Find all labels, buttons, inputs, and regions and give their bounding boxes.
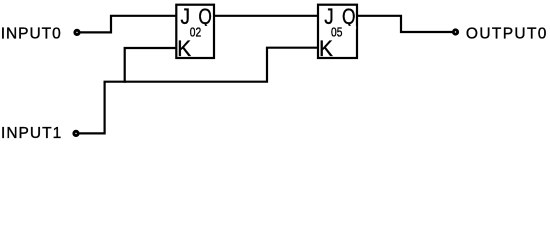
- JK flip-flop U2 (05): [318, 4, 357, 61]
- svg-text:K: K: [177, 36, 191, 61]
- wire INPUT0 to J of U1: [80, 16, 175, 33]
- svg-text:INPUT1: INPUT1: [1, 125, 61, 142]
- svg-text:J: J: [181, 4, 191, 29]
- wire INPUT1 bus to K of U2: [79, 48, 317, 134]
- wire Q of U2 to OUTPUT0: [358, 16, 453, 32]
- svg-text:Q: Q: [342, 4, 356, 29]
- svg-text:02: 02: [190, 26, 201, 40]
- input pin INPUT0: [75, 30, 79, 34]
- svg-text:05: 05: [331, 26, 342, 40]
- svg-text:K: K: [319, 36, 333, 61]
- svg-text:INPUT0: INPUT0: [1, 25, 61, 42]
- wire Q of U1 to J of U2: [214, 15, 318, 17]
- JK flip-flop U1 (02): [176, 4, 214, 61]
- output pin OUTPUT0: [453, 30, 457, 34]
- wire branch junction to K of U1: [125, 48, 176, 83]
- input pin INPUT1: [74, 131, 78, 135]
